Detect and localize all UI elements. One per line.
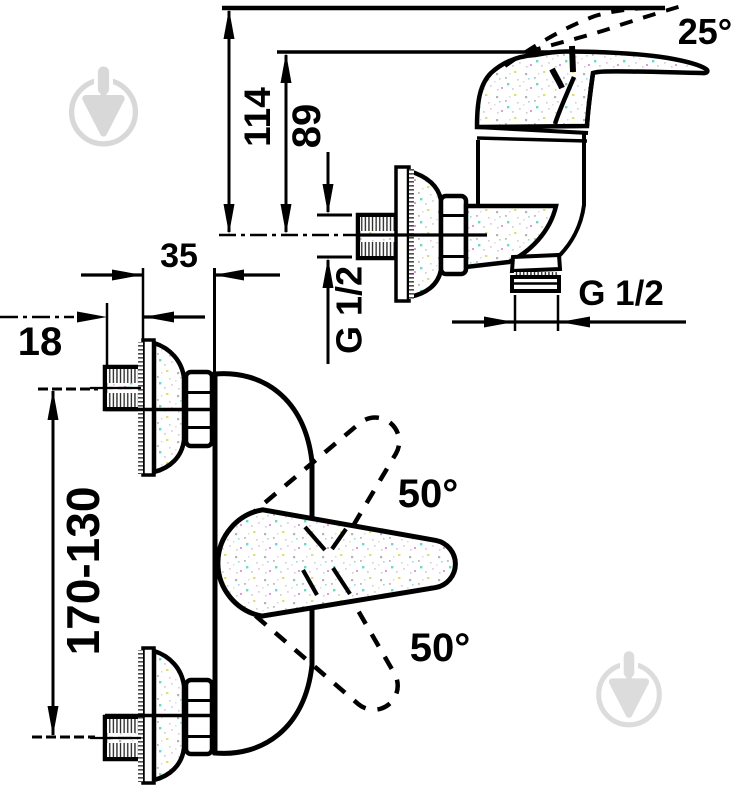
faucet body (front view) [215, 374, 312, 754]
extension line: handle top level (89) [277, 50, 574, 54]
svg-text:25°: 25° [678, 11, 732, 52]
escutcheon bell (side view) [409, 171, 441, 297]
watermark logo top-left [72, 67, 136, 144]
bottom union pipe axis (dash-dot) [90, 737, 141, 739]
bottom wall union: threaded nipple [105, 717, 141, 759]
dimension G 1/2 (outlet) [452, 320, 686, 323]
cap ring under handle (side view) [476, 127, 588, 133]
extension line: max handle height (top) [222, 6, 665, 11]
bottom escutcheon bell [154, 651, 184, 780]
tick for 170-130 top [38, 388, 98, 391]
dashed handle rotated +50 deg (front view) [225, 521, 431, 737]
dimension 89 [285, 55, 288, 232]
svg-text:50°: 50° [410, 626, 471, 670]
handle cross detail [305, 527, 325, 550]
dimension 35 [81, 273, 142, 276]
svg-text:35: 35 [160, 237, 198, 275]
inlet horn of body (side view) [466, 206, 556, 267]
svg-text:18: 18 [18, 320, 63, 364]
union nut (side view) [441, 196, 466, 274]
dimension G 1/2 (union thread, side view) [327, 152, 330, 212]
svg-text:G 1/2: G 1/2 [329, 266, 370, 354]
svg-text:G 1/2: G 1/2 [578, 274, 664, 313]
dashed handle rotated 25 deg (side view) [505, 8, 660, 66]
top escutcheon bell [154, 343, 184, 472]
svg-text:89: 89 [285, 104, 329, 149]
shower outlet nut (side view) [512, 277, 559, 291]
watermark logo bottom-right [599, 651, 660, 725]
threaded nipple of wall union (side view) [358, 215, 399, 258]
handle lever with dome (side view) [477, 52, 707, 128]
extension line plate edge [142, 268, 145, 341]
handle knob (front view, solid) [218, 510, 456, 616]
bottom escutcheon plate [143, 648, 154, 783]
nipple axis lines across nipples [105, 387, 141, 389]
centre axis of wall union (side view, left dash-dot part) [219, 234, 357, 236]
top union pipe axis (dash-dot) [90, 387, 141, 389]
dashed handle rotated -50 deg (front view) [225, 388, 431, 604]
dimension 114 [228, 11, 231, 232]
top union nut [186, 372, 212, 446]
dimension 170-130 [52, 391, 55, 735]
bottom union nut [186, 680, 212, 754]
escutcheon plate (side view) [396, 167, 409, 301]
tick for 170-130 bottom [32, 736, 95, 739]
top escutcheon plate [143, 340, 154, 475]
faucet body (side view) [476, 140, 480, 206]
svg-text:170-130: 170-130 [57, 487, 109, 656]
centre axis through union (side view) [357, 233, 487, 236]
top union faucet axis line [105, 408, 243, 412]
dimension 18 [0, 316, 74, 319]
svg-text:114: 114 [237, 87, 278, 147]
handle inner crease lines [572, 46, 573, 72]
wall mounting plane line [213, 268, 216, 716]
bottom union faucet axis line [105, 714, 243, 718]
extension lines for outlet dimension [514, 295, 517, 331]
svg-text:50°: 50° [398, 472, 459, 516]
shower outlet collar (side view) [512, 255, 560, 271]
extension line nipple end [106, 303, 109, 365]
top wall union: threaded nipple [105, 367, 141, 409]
